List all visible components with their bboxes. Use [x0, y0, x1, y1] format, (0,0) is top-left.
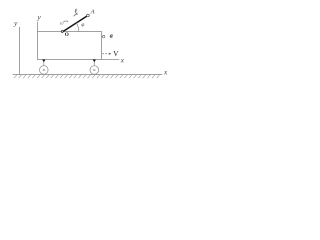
moving y-axis (left edge extension) — [37, 22, 39, 32]
svg-text:φ: φ — [81, 22, 84, 28]
svg-text:ω: ω — [60, 21, 64, 27]
svg-text:V: V — [113, 50, 119, 58]
rod OA — [63, 16, 87, 31]
svg-text:O: O — [65, 32, 69, 38]
cart body rectangle — [38, 32, 102, 60]
phi angle arc — [76, 23, 79, 32]
dashed velocity arrow V — [102, 53, 109, 55]
moving x-axis (bottom edge extension) — [102, 59, 120, 61]
svg-text:a: a — [110, 33, 113, 39]
end circle A — [87, 14, 90, 17]
wheel 1 — [40, 60, 49, 75]
circle a on right edge — [101, 36, 104, 38]
svg-text:y: y — [36, 13, 41, 22]
wheel 2 — [90, 60, 99, 75]
svg-text:x: x — [120, 56, 125, 65]
fixed y-axis — [18, 27, 20, 75]
ground line — [13, 74, 163, 76]
ground hatching — [14, 75, 160, 79]
pivot circle O — [61, 31, 63, 33]
small arc under ell — [74, 14, 78, 16]
svg-text:y: y — [13, 18, 18, 27]
svg-text:A: A — [90, 9, 95, 16]
omega rotation arrow — [63, 21, 67, 22]
